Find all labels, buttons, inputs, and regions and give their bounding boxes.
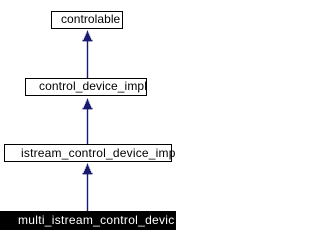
- label istream_control_device_impl: [21, 147, 178, 159]
- inheritance arrows: [0, 0, 176, 242]
- class box control_device_impl: [25, 78, 147, 96]
- class box multi_istream_control_device_impl (current, black): [0, 211, 176, 230]
- label controlable: [61, 13, 120, 25]
- arrow control_device_impl <- istream_control_device_impl : shaft: [87, 101, 89, 144]
- arrow istream_control_device_impl <- multi_istream_control_device_impl : head: [83, 163, 93, 174]
- arrow controlable <- control_device_impl : head: [83, 30, 93, 41]
- label control_device_impl: [39, 80, 147, 92]
- arrow control_device_impl <- istream_control_device_impl : head: [83, 98, 93, 109]
- arrow istream_control_device_impl <- multi_istream_control_device_impl : shaft: [87, 166, 89, 211]
- class box controlable: [51, 11, 123, 29]
- arrow controlable <- control_device_impl : shaft: [87, 34, 89, 78]
- class box istream_control_device_impl: [4, 144, 172, 162]
- label multi_istream_control_device_impl: [18, 214, 175, 230]
